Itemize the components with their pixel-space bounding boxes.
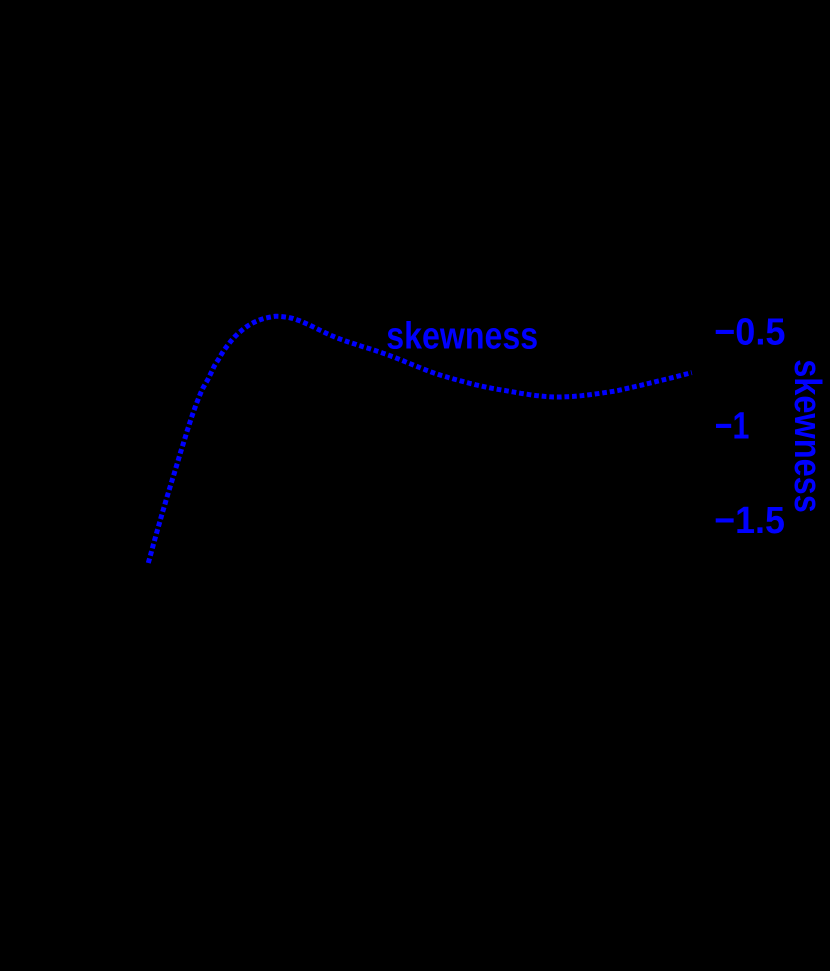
svg-text:−0.5: −0.5 <box>714 312 785 354</box>
skewness curve (blue dotted) <box>148 316 692 563</box>
svg-text:−1: −1 <box>715 406 750 448</box>
svg-text:skewness: skewness <box>386 316 538 358</box>
svg-text:skewness: skewness <box>786 359 828 513</box>
svg-text:−1.5: −1.5 <box>714 500 785 542</box>
